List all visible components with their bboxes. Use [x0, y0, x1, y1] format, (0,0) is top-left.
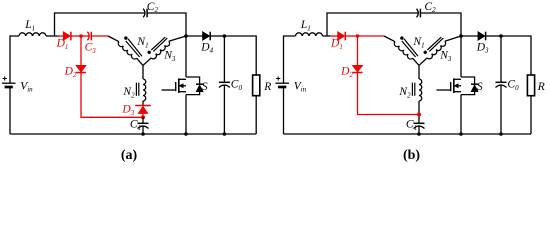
node above C1 (a): [141, 115, 145, 119]
node top junction (b): [459, 34, 463, 38]
resistor R (b): [527, 75, 534, 96]
diode D2 (a): [76, 65, 86, 72]
winding N2 (a): [142, 65, 144, 79]
polarity dot N1 (a): [124, 36, 127, 39]
wire source (a): [185, 95, 187, 134]
node C1 on rail (a): [141, 132, 145, 136]
wire L1 to D1 (a): [46, 35, 59, 37]
diode D4 (a): [186, 35, 203, 37]
wire bottom rail (b): [284, 133, 532, 135]
node source on rail (b): [459, 132, 463, 136]
node C0 on rail (b): [499, 132, 503, 136]
winding N3 (b): [445, 36, 461, 41]
capacitor C0 (a): [223, 36, 225, 82]
capacitor C1 (b): [414, 122, 425, 124]
capacitor C1 (a): [142, 117, 144, 123]
capacitor C0 (b): [500, 36, 502, 82]
core lines N1 (a): [128, 39, 142, 57]
polarity dot N1 (b): [400, 36, 403, 39]
wire bottom rail (a): [10, 133, 256, 135]
winding N2 (b): [418, 65, 420, 79]
svg-text:S: S: [477, 81, 483, 93]
node after D1 (a): [79, 34, 83, 38]
wire top rail right (b): [501, 36, 531, 75]
polarity dot N3 (b): [424, 51, 427, 54]
diode D1 (a): [59, 35, 64, 37]
wire D1 to N1 (b): [358, 35, 385, 37]
node source on rail (a): [184, 132, 188, 136]
diode D3 (b): [461, 35, 478, 37]
capacitor C2 (a): [143, 9, 145, 18]
node C0 top (b): [499, 34, 503, 38]
svg-text:R: R: [263, 81, 271, 93]
node top junction (a): [184, 34, 188, 38]
core lines N2 (b): [411, 83, 413, 96]
wire left edge top (b): [284, 36, 296, 83]
wire left edge top (a): [10, 36, 19, 83]
svg-text:(b): (b): [403, 148, 420, 163]
node C1 on rail (b): [417, 132, 421, 136]
wire drain (b): [460, 36, 462, 77]
node above C1 (b): [417, 113, 421, 117]
node C0 top (a): [223, 34, 227, 38]
wire C2 branch right (a): [147, 13, 186, 36]
inductor L1 (b): [296, 33, 323, 36]
diode D2 (b): [353, 65, 363, 72]
core lines N2 (a): [135, 83, 137, 96]
circuit (b): battery Vin: [275, 82, 289, 84]
wire C2 branch left (a): [55, 13, 145, 36]
core lines N3 (a): [151, 37, 165, 50]
diode D1 (b): [331, 35, 338, 37]
circuit (a): battery Vin: [2, 82, 16, 84]
wire C2 branch right (b): [420, 13, 461, 36]
polarity dot N3 (a): [148, 51, 151, 54]
wire source (b): [460, 95, 462, 134]
capacitor C2 (b): [417, 9, 419, 18]
transistor S MOSFET (a): [186, 77, 200, 95]
inductor L1 (a): [19, 33, 46, 36]
resistor R (a): [253, 75, 260, 96]
wire top rail right (a): [224, 36, 256, 75]
node after D1 (b): [356, 34, 360, 38]
svg-text:R: R: [537, 81, 545, 93]
core lines N1 (b): [404, 39, 418, 57]
svg-text:S: S: [202, 81, 208, 93]
node C0 on rail (a): [223, 132, 227, 136]
winding N3 (a): [169, 36, 186, 41]
wire left edge bottom (b): [283, 87, 285, 134]
wire red branch D2 (b): [358, 36, 420, 115]
wire L1 to D1 (b): [323, 35, 331, 37]
core lines N3 (b): [427, 37, 441, 50]
winding N1 (b): [384, 36, 395, 42]
wire drain (a): [185, 36, 187, 77]
winding N1 (a): [108, 36, 119, 42]
wire C2 branch left (b): [327, 13, 418, 36]
transistor S MOSFET (b): [461, 77, 475, 95]
svg-text:(a): (a): [121, 148, 138, 163]
wire red branch D2 (a): [81, 36, 143, 117]
diode D3 (a): [135, 105, 151, 107]
wire right edge bottom (b): [530, 96, 532, 134]
wire left edge bottom (a): [9, 87, 11, 134]
wire right edge bottom (a): [255, 96, 257, 134]
capacitor C3 (a): [87, 32, 89, 41]
